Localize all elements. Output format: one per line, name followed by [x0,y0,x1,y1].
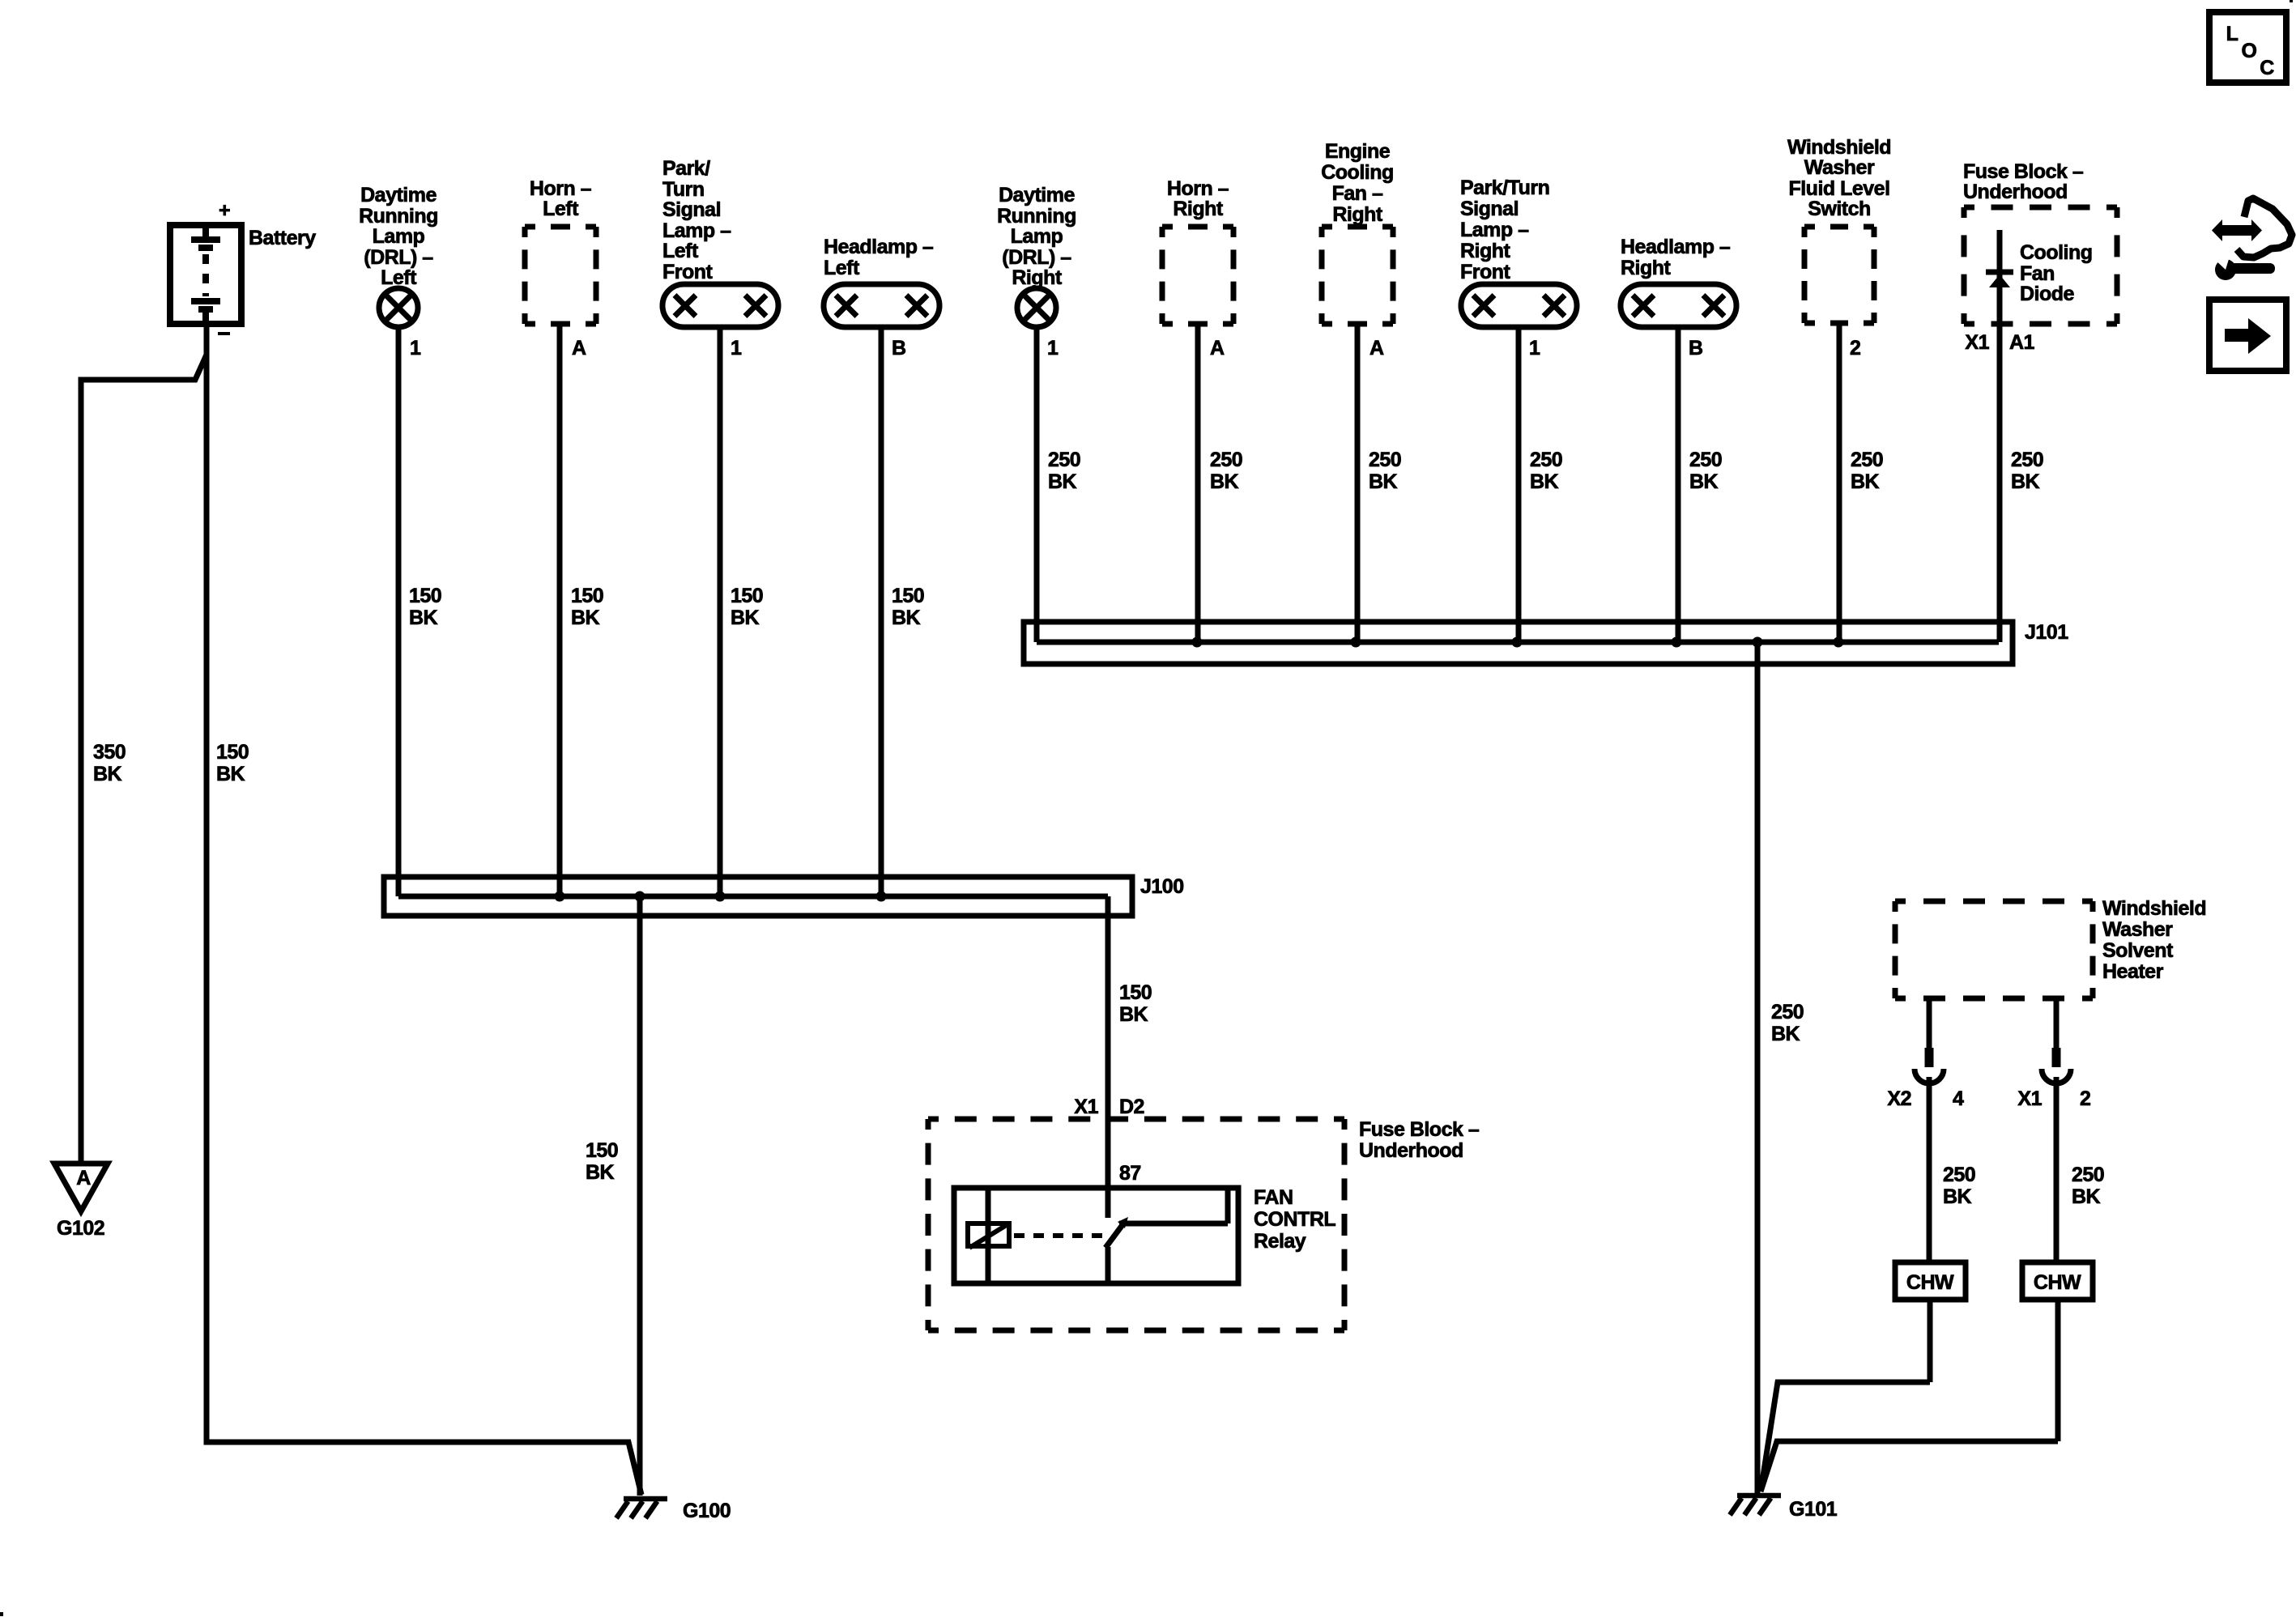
svg-text:Park/: Park/ [662,157,710,180]
svg-text:Front: Front [1460,261,1511,283]
svg-text:Washer: Washer [2102,918,2173,941]
svg-text:L: L [2226,23,2238,45]
svg-text:Running: Running [359,205,438,228]
svg-text:CONTRL: CONTRL [1254,1208,1335,1231]
svg-text:Battery: Battery [249,227,316,249]
svg-text:J101: J101 [2025,621,2068,644]
svg-text:1: 1 [731,337,742,360]
svg-text:250: 250 [1210,449,1242,471]
svg-text:Cooling: Cooling [2020,241,2093,264]
svg-text:250: 250 [1048,449,1080,471]
svg-text:BK: BK [2072,1185,2101,1208]
svg-text:Left: Left [824,257,860,279]
svg-text:X2: X2 [1887,1087,1911,1110]
svg-text:(DRL) –: (DRL) – [1002,246,1071,269]
svg-text:Lamp –: Lamp – [662,219,731,242]
svg-text:Windshield: Windshield [1787,136,1891,159]
svg-text:Washer: Washer [1804,156,1875,179]
svg-text:Right: Right [1460,240,1511,262]
svg-text:Diode: Diode [2020,283,2075,305]
svg-text:Right: Right [1173,198,1224,220]
svg-text:150: 150 [586,1139,618,1162]
svg-text:FAN: FAN [1254,1186,1293,1209]
svg-text:1: 1 [1047,337,1059,360]
svg-text:150: 150 [731,585,763,607]
svg-text:B: B [892,337,906,360]
svg-text:Windshield: Windshield [2102,897,2206,920]
svg-text:Right: Right [1621,257,1672,279]
svg-text:Left: Left [662,240,699,262]
svg-text:A: A [76,1167,91,1189]
svg-text:Right: Right [1012,266,1063,289]
svg-text:Right: Right [1332,203,1383,226]
svg-text:Fuse Block –: Fuse Block – [1963,160,2084,183]
svg-text:D2: D2 [1119,1096,1144,1118]
svg-text:Front: Front [662,261,714,283]
svg-text:Running: Running [997,205,1076,228]
svg-text:Fan: Fan [2020,262,2055,285]
svg-text:BK: BK [1943,1185,1972,1208]
svg-text:CHW: CHW [1906,1271,1954,1294]
svg-text:Lamp –: Lamp – [1460,219,1529,241]
svg-text:J100: J100 [1140,875,1184,898]
svg-text:250: 250 [1689,449,1722,471]
svg-text:Underhood: Underhood [1359,1139,1463,1162]
svg-text:BK: BK [571,606,600,629]
svg-text:BK: BK [409,606,438,629]
svg-text:A: A [1210,337,1225,360]
svg-text:Horn –: Horn – [1167,177,1229,200]
svg-text:Headlamp –: Headlamp – [824,236,934,258]
svg-text:Daytime: Daytime [360,184,437,206]
svg-text:A: A [572,337,586,360]
svg-text:150: 150 [409,585,441,607]
svg-text:Park/Turn: Park/Turn [1460,177,1549,199]
svg-text:BK: BK [1689,470,1719,493]
svg-text:BK: BK [93,763,122,785]
svg-text:150: 150 [892,585,924,607]
svg-text:Cooling: Cooling [1321,161,1394,184]
svg-text:250: 250 [2072,1164,2104,1186]
svg-text:250: 250 [1851,449,1883,471]
svg-text:BK: BK [731,606,760,629]
svg-text:150: 150 [571,585,603,607]
svg-text:Heater: Heater [2102,960,2164,983]
svg-text:2: 2 [1850,337,1860,360]
svg-text:X1: X1 [2017,1087,2042,1110]
svg-text:250: 250 [1771,1001,1804,1023]
svg-text:Left: Left [381,266,417,289]
svg-text:BK: BK [1048,470,1077,493]
svg-text:C: C [2260,57,2274,79]
svg-text:2: 2 [2080,1087,2090,1110]
svg-text:G100: G100 [683,1500,731,1522]
svg-text:BK: BK [1771,1023,1800,1045]
svg-text:BK: BK [1851,470,1880,493]
svg-text:BK: BK [586,1161,615,1184]
svg-text:G102: G102 [57,1217,104,1240]
svg-text:250: 250 [2011,449,2043,471]
svg-text:150: 150 [1119,981,1152,1004]
svg-text:BK: BK [892,606,921,629]
svg-text:(DRL) –: (DRL) – [364,246,433,269]
svg-text:Lamp: Lamp [1011,225,1063,248]
svg-text:350: 350 [93,741,126,764]
svg-text:Underhood: Underhood [1963,181,2068,203]
svg-text:Engine: Engine [1325,140,1391,163]
svg-text:Left: Left [543,198,579,220]
svg-text:A1: A1 [2009,331,2035,354]
svg-text:Solvent: Solvent [2102,939,2174,962]
svg-text:Fan –: Fan – [1332,182,1383,205]
svg-text:Signal: Signal [1460,198,1519,220]
svg-text:1: 1 [410,337,421,360]
svg-text:Horn –: Horn – [530,177,592,200]
svg-text:87: 87 [1119,1162,1141,1185]
svg-text:Switch: Switch [1808,198,1871,220]
svg-text:BK: BK [1210,470,1239,493]
svg-text:1: 1 [1529,337,1540,360]
svg-text:BK: BK [1119,1003,1148,1026]
svg-text:150: 150 [216,741,249,764]
svg-text:250: 250 [1943,1164,1975,1186]
svg-text:+: + [219,199,230,222]
svg-text:BK: BK [1369,470,1398,493]
svg-text:A: A [1370,337,1384,360]
svg-text:Lamp: Lamp [373,225,425,248]
svg-text:X1: X1 [1965,331,1989,354]
svg-text:CHW: CHW [2034,1271,2081,1294]
svg-text:250: 250 [1369,449,1401,471]
svg-text:BK: BK [1530,470,1559,493]
svg-text:BK: BK [2011,470,2040,493]
svg-text:Turn: Turn [662,178,705,201]
svg-text:4: 4 [1953,1087,1964,1110]
svg-text:G101: G101 [1789,1498,1838,1521]
svg-text:B: B [1689,337,1703,360]
svg-text:O: O [2242,40,2257,62]
svg-text:Fuse Block –: Fuse Block – [1359,1118,1480,1141]
svg-text:BK: BK [216,763,245,785]
svg-text:X1: X1 [1074,1096,1098,1118]
svg-text:Daytime: Daytime [999,184,1075,206]
svg-text:Headlamp –: Headlamp – [1621,236,1731,258]
svg-text:Relay: Relay [1254,1230,1306,1253]
svg-text:Fluid Level: Fluid Level [1788,177,1889,200]
svg-text:250: 250 [1530,449,1562,471]
svg-text:Signal: Signal [662,198,721,221]
